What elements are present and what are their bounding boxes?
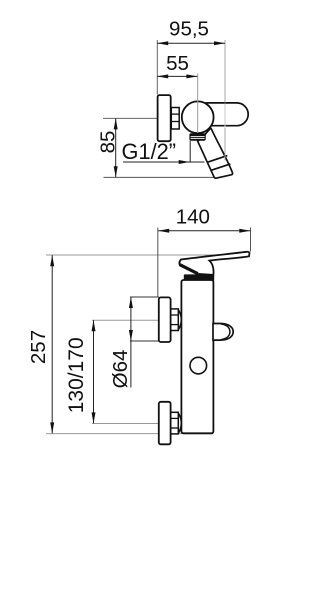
svg-text:257: 257	[27, 330, 50, 364]
svg-text:130/170: 130/170	[65, 337, 88, 413]
svg-text:140: 140	[176, 206, 210, 229]
svg-text:Ø64: Ø64	[109, 350, 132, 389]
svg-text:G1/2”: G1/2”	[122, 139, 177, 164]
svg-text:85: 85	[97, 131, 120, 154]
svg-text:55: 55	[166, 52, 189, 75]
svg-text:95,5: 95,5	[169, 17, 209, 40]
